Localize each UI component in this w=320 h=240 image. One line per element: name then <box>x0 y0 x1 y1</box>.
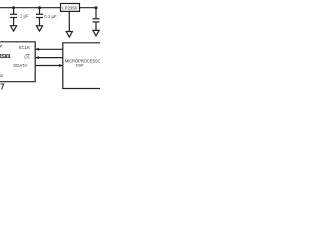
wire VA rail left <box>0 7 61 9</box>
svg-text:7: 7 <box>0 83 4 92</box>
node junction C1 <box>12 6 15 9</box>
svg-text:CS: CS <box>24 54 30 59</box>
svg-text:LP2950: LP2950 <box>62 5 78 10</box>
wire SCLK <box>35 48 63 50</box>
ADC U1 box <box>0 42 35 82</box>
ground U2 <box>66 32 72 38</box>
wire VA rail right <box>80 7 98 9</box>
regulator U2 LP2950 box <box>61 4 80 12</box>
capacitor C2 <box>36 8 43 26</box>
capacitor C1 <box>10 8 17 26</box>
svg-text:SCLK: SCLK <box>19 45 31 50</box>
fragment letter top-left <box>0 45 2 48</box>
arrowhead SDATA into microprocessor <box>59 64 63 67</box>
node junction C3 <box>95 6 98 9</box>
wire U2 ground stem <box>68 11 70 31</box>
svg-text:GND: GND <box>0 74 4 78</box>
wire SDATA <box>35 65 63 67</box>
svg-text:1 µF: 1 µF <box>20 13 29 18</box>
wire CS <box>35 57 63 59</box>
svg-text:0.1 µF: 0.1 µF <box>44 14 57 19</box>
pin label CS overline <box>26 54 30 56</box>
ground C1 <box>11 26 17 32</box>
node junction C2 <box>38 6 41 9</box>
ground C3 <box>93 30 99 36</box>
svg-text:21S101: 21S101 <box>0 54 11 60</box>
capacitor C3 <box>93 8 100 31</box>
microprocessor box <box>63 43 100 89</box>
arrowhead CS into U1 <box>35 56 39 59</box>
svg-text:SDATA: SDATA <box>13 63 27 68</box>
ground C2 <box>36 26 42 32</box>
svg-text:DSP: DSP <box>76 63 84 68</box>
arrowhead SCLK into U1 <box>35 48 39 51</box>
